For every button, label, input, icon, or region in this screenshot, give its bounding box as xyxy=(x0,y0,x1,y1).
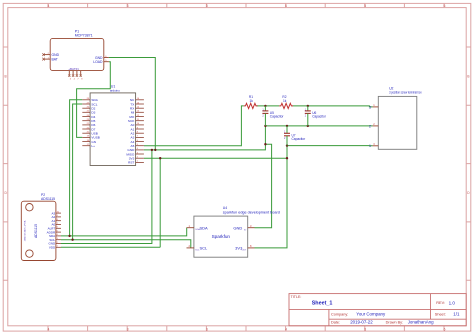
svg-text:sparkfun edge development boar: sparkfun edge development board xyxy=(223,210,280,214)
wire: U7 bottom to U2 pin 3 xyxy=(287,145,373,147)
wire: GND branch to Sparkfun GND pin xyxy=(255,144,272,228)
svg-text:OUT: OUT xyxy=(242,250,247,252)
svg-text:SDA: SDA xyxy=(200,226,209,231)
wire: GND bus (Arduino GND, up to capacitor rail) xyxy=(144,126,266,150)
svg-text:3: 3 xyxy=(127,327,129,331)
wire: capacitor ground rail to U2 pin 2 xyxy=(265,125,372,127)
svg-text:3: 3 xyxy=(369,105,371,109)
svg-text:4: 4 xyxy=(48,4,50,8)
svg-text:3: 3 xyxy=(206,327,208,331)
svg-text:JonathanAng: JonathanAng xyxy=(408,320,434,325)
wire: P1 GND to Arduino GND net xyxy=(109,58,155,150)
svg-text:6: 6 xyxy=(444,4,446,8)
svg-text:RST: RST xyxy=(128,161,134,165)
svg-text:3: 3 xyxy=(206,4,208,8)
svg-text:+BATIN: +BATIN xyxy=(68,67,78,71)
wire: Arduino SDA down to ADS1115 SDA xyxy=(70,100,83,236)
svg-text:B: B xyxy=(5,75,7,79)
svg-text:6: 6 xyxy=(444,327,446,331)
junction dots xyxy=(68,105,309,241)
svg-text:BAT: BAT xyxy=(52,58,58,62)
svg-text:5: 5 xyxy=(364,4,366,8)
battery charger P1 MCP73871 xyxy=(42,29,109,80)
resistor R2 xyxy=(279,95,293,109)
svg-text:Sheet_1: Sheet_1 xyxy=(312,301,333,307)
svg-text:5: 5 xyxy=(364,327,366,331)
wire: ADS1115 GND up to GND bus xyxy=(61,150,152,244)
svg-text:1k: 1k xyxy=(250,99,254,103)
P1 pin BAT (left) xyxy=(42,58,50,61)
title block text xyxy=(291,295,460,325)
ADC module P2 ADS1115 xyxy=(21,193,56,260)
U1 right pins NC..RST xyxy=(136,100,144,163)
svg-text:Sheet:: Sheet: xyxy=(435,313,446,317)
U2 pin 2 xyxy=(373,125,379,127)
svg-text:Capacitor: Capacitor xyxy=(292,137,307,141)
svg-text:ADS1115: ADS1115 xyxy=(41,197,55,201)
mounting hole top xyxy=(26,204,33,211)
svg-text:3 position screw terminal box: 3 position screw terminal box xyxy=(389,91,422,95)
svg-text:B: B xyxy=(467,75,469,79)
svg-text:VDD: VDD xyxy=(49,246,56,250)
svg-text:2019-07-22: 2019-07-22 xyxy=(350,320,373,325)
U1 left pins SDA..L+ xyxy=(82,100,90,146)
wire: Arduino A5 to R1 xyxy=(144,106,244,146)
U2 pin 3 xyxy=(373,145,379,147)
wire: ADS1115 SCL to Sparkfun SCL xyxy=(61,240,191,248)
capacitor U6 xyxy=(305,106,327,126)
U4 pin 2 SCL xyxy=(187,247,194,249)
U4 pin 1 SDA xyxy=(187,227,194,229)
microcontroller U1 arduino xyxy=(90,85,136,166)
svg-text:Capacitor: Capacitor xyxy=(312,115,327,119)
capacitor U7 xyxy=(284,126,306,146)
svg-text:Drawn By:: Drawn By: xyxy=(386,321,404,325)
svg-text:1k: 1k xyxy=(283,99,287,103)
P2 pins A3..VDD xyxy=(56,213,61,247)
wire: R1 to R2 xyxy=(257,105,280,107)
svg-text:1/1: 1/1 xyxy=(453,312,460,317)
svg-text:1: 1 xyxy=(369,144,371,148)
svg-text:1.0: 1.0 xyxy=(449,300,456,305)
svg-text:4: 4 xyxy=(285,327,287,331)
resistor R1 xyxy=(244,95,258,109)
P1 pin GND (right) xyxy=(104,57,109,59)
mounting hole bottom xyxy=(26,250,33,257)
wire: Arduino SCL down to ADS1115 SCL xyxy=(73,104,83,240)
wire: P1 LOAD to Arduino VUSB xyxy=(77,62,111,138)
svg-text:Your Company: Your Company xyxy=(356,311,386,316)
svg-text:LOAD: LOAD xyxy=(93,60,103,64)
svg-text:4: 4 xyxy=(48,327,50,331)
U4 pin 8 3V3 xyxy=(248,247,255,249)
wire: U7 to Sparkfun 3V3 vertical xyxy=(255,146,288,248)
dev board U4 sparkfun edge development board xyxy=(187,206,281,257)
svg-text:GND: GND xyxy=(52,53,60,57)
P1 pin LOAD (right) xyxy=(104,61,109,63)
svg-text:2: 2 xyxy=(369,124,371,128)
svg-text:16Bit I2C ADC +PGA: 16Bit I2C ADC +PGA xyxy=(24,220,27,241)
U4 pin 3 GND xyxy=(248,227,255,229)
svg-text:ADS1115: ADS1115 xyxy=(34,224,38,238)
capacitor U5 xyxy=(262,106,284,126)
svg-text:4: 4 xyxy=(285,4,287,8)
wire: ADS1115 VDD to 3V3 branch xyxy=(61,246,160,248)
svg-text:GND: GND xyxy=(233,226,242,231)
svg-text:TITLE:: TITLE: xyxy=(291,295,302,299)
svg-text:Date:: Date: xyxy=(331,321,340,325)
terminal block U2 3 position screw terminal box xyxy=(369,86,422,149)
P1 pin GND (left) xyxy=(42,53,50,56)
svg-text:L+: L+ xyxy=(91,144,95,148)
svg-text:3: 3 xyxy=(127,4,129,8)
svg-text:Sparkfun: Sparkfun xyxy=(212,234,231,239)
U2 pin 1 xyxy=(373,106,379,108)
P1 bottom pins VBAT cluster xyxy=(68,71,82,77)
svg-text:REV:: REV: xyxy=(436,301,445,305)
wire: 3V3 branch down to ADS1115 VDD xyxy=(159,158,161,247)
wire: ADS1115 SDA to Sparkfun SDA xyxy=(61,228,187,236)
svg-text:Company:: Company: xyxy=(331,312,348,316)
svg-text:SCL: SCL xyxy=(200,246,209,251)
wire: R2 to U2 pin 1 xyxy=(293,106,373,107)
title block xyxy=(289,294,466,326)
svg-text:MCP73871: MCP73871 xyxy=(75,34,93,38)
wire: 3V3 rail from Arduino xyxy=(144,157,287,159)
svg-text:U4: U4 xyxy=(223,206,227,210)
svg-text:arduino: arduino xyxy=(110,89,120,93)
svg-text:Capacitor: Capacitor xyxy=(270,115,285,119)
svg-text:IO: IO xyxy=(244,229,247,231)
